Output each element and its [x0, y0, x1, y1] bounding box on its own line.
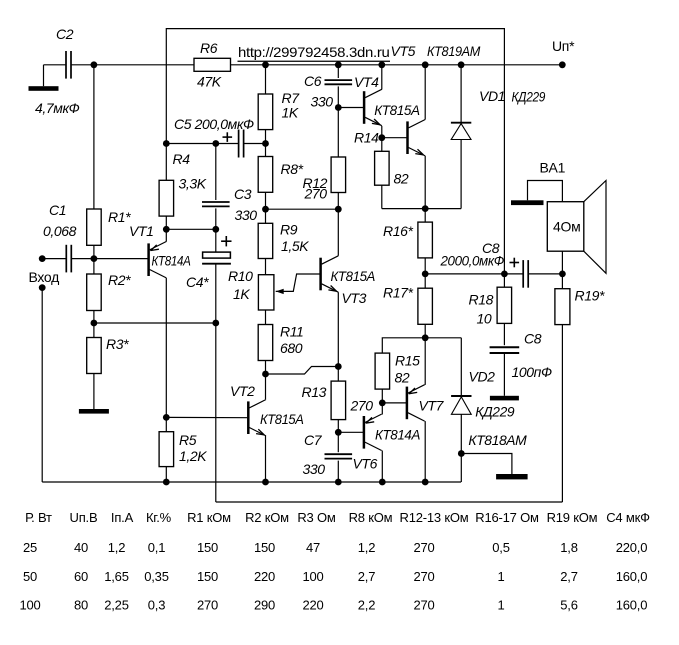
svg-text:1,2: 1,2: [108, 540, 125, 555]
svg-text:КТ815А: КТ815А: [374, 102, 420, 118]
svg-text:КТ818АМ: КТ818АМ: [468, 432, 527, 448]
svg-text:R1*: R1*: [108, 209, 131, 225]
svg-text:1,8: 1,8: [560, 540, 577, 555]
node VT1 collector: [163, 226, 170, 233]
svg-text:0,35: 0,35: [144, 569, 169, 584]
resistor R19*: [555, 289, 570, 325]
svg-text:C1: C1: [49, 202, 66, 218]
wire node to C7: [337, 432, 339, 452]
wire node to R5: [165, 417, 167, 431]
svg-text:100пФ: 100пФ: [512, 364, 552, 380]
svg-text:R8*: R8*: [281, 161, 304, 177]
wire output row: [425, 273, 523, 275]
svg-text:2000,0мкФ: 2000,0мкФ: [440, 253, 505, 269]
wire node to R15 top: [382, 338, 425, 353]
svg-text:40: 40: [74, 540, 88, 555]
svg-text:Кг.%: Кг.%: [146, 510, 172, 525]
svg-text:160,0: 160,0: [616, 597, 648, 612]
wire R14 down: [381, 185, 383, 208]
svg-text:Iп.А: Iп.А: [111, 510, 134, 525]
ground (C2 input): [43, 65, 45, 86]
node rail-R7: [262, 61, 269, 68]
svg-text:47: 47: [306, 540, 320, 555]
terminal Вход (signal): [39, 255, 46, 262]
svg-text:R15: R15: [395, 353, 420, 369]
svg-text:25: 25: [23, 540, 37, 555]
svg-text:КД229: КД229: [475, 404, 515, 420]
node R8/R9: [262, 206, 269, 213]
svg-text:150: 150: [197, 569, 218, 584]
node rail-C6: [335, 61, 342, 68]
wire VT4 base: [338, 107, 363, 109]
wire R7 to node: [265, 130, 267, 144]
svg-text:Uп*: Uп*: [552, 38, 575, 54]
svg-text:1K: 1K: [233, 286, 250, 302]
svg-text:220,0: 220,0: [616, 540, 648, 555]
wire R15 to VT6 emitter node: [381, 389, 383, 403]
wire C2 to R6: [71, 64, 194, 66]
wire R8 node to R12 node: [266, 208, 339, 210]
svg-text:R17*: R17*: [383, 285, 413, 301]
node VT1 emitter / VT2 base: [163, 414, 170, 421]
svg-text:50: 50: [23, 569, 37, 584]
svg-text:1,2: 1,2: [358, 540, 375, 555]
node rail-VT5: [422, 61, 429, 68]
capacitor C7: [325, 453, 353, 455]
wire node to R17: [424, 274, 426, 288]
svg-text:R14: R14: [354, 130, 379, 146]
svg-text:R19*: R19*: [575, 288, 605, 304]
svg-text:2,2: 2,2: [358, 597, 375, 612]
node R17/R15/VT7: [422, 334, 429, 341]
wire R18 to C8: [503, 323, 505, 345]
svg-text:R3 Ом: R3 Ом: [297, 510, 336, 525]
node R2/R3 junction: [91, 320, 98, 327]
svg-text:1,65: 1,65: [104, 569, 129, 584]
node R7/R8/C5: [262, 140, 269, 147]
svg-text:VT1: VT1: [129, 223, 153, 239]
wire C6 to VT4 base node: [337, 86, 339, 107]
svg-text:270: 270: [350, 398, 374, 414]
wire speaker top to ground: [528, 181, 563, 202]
wire VT1 collector node to C4 top: [166, 228, 216, 230]
diode VD2: [460, 338, 462, 396]
resistor R4: [159, 180, 174, 216]
svg-text:R1 кОм: R1 кОм: [187, 510, 231, 525]
transistor VT1: [165, 229, 167, 241]
svg-text:C8: C8: [524, 331, 542, 347]
wire R16 to output node: [424, 258, 426, 274]
svg-text:C6: C6: [304, 73, 322, 89]
wire R10 to R11: [265, 310, 267, 325]
terminal Uп*: [559, 61, 566, 68]
wire VT5 emitter down: [424, 156, 426, 209]
capacitor C5: [238, 130, 240, 158]
svg-text:КТ819АМ: КТ819АМ: [427, 43, 481, 59]
capacitor C4*: [215, 229, 217, 252]
wire R13 to VT6 base node: [337, 420, 339, 433]
wire feedback bottom: [216, 501, 563, 503]
svg-text:R13: R13: [302, 384, 327, 400]
svg-text:1: 1: [497, 569, 504, 584]
resistor R10 (preset): [258, 275, 274, 310]
resistor R13: [331, 381, 346, 420]
wire node to R13: [337, 367, 339, 382]
svg-text:VT7: VT7: [419, 398, 445, 414]
svg-text:100: 100: [19, 597, 40, 612]
wire R4 node to C5: [166, 143, 238, 145]
wire R2 to R3: [93, 311, 95, 338]
wire R19 to feedback bottom: [561, 325, 563, 502]
wire C3 to C4 node: [215, 208, 217, 229]
node R4 top junction: [163, 140, 170, 147]
transistor VT4: [381, 65, 383, 90]
resistor R5: [159, 432, 174, 467]
svg-text:VT2: VT2: [230, 383, 255, 399]
resistor R12: [331, 157, 346, 193]
capacitor C8 (100пФ): [490, 346, 520, 348]
transistor VT6: [381, 403, 383, 415]
wire VT2 base: [166, 416, 247, 418]
svg-text:0,1: 0,1: [148, 540, 165, 555]
ground (R3): [93, 374, 95, 410]
svg-text:1,5K: 1,5K: [281, 238, 309, 254]
svg-text:R16*: R16*: [383, 223, 413, 239]
svg-text:330: 330: [235, 207, 258, 223]
wire frame node to R18: [503, 274, 505, 287]
wire VT7 base: [382, 402, 407, 404]
svg-text:330: 330: [311, 94, 334, 110]
wire node to R14: [381, 138, 383, 152]
node VD2 ground tap: [458, 450, 465, 457]
svg-text:1K: 1K: [282, 105, 299, 121]
svg-text:47K: 47K: [197, 74, 222, 90]
svg-text:VT6: VT6: [353, 456, 378, 472]
resistor R15: [375, 353, 390, 389]
resistor R1*: [87, 209, 102, 245]
svg-text:290: 290: [254, 597, 275, 612]
resistor R14: [375, 151, 390, 185]
node VT4 base: [335, 104, 342, 111]
wire C5 to R7 node: [244, 143, 266, 145]
svg-text:0,3: 0,3: [148, 597, 165, 612]
wire R9 to R10: [265, 259, 267, 275]
wire R11 to VT2 node: [265, 361, 267, 375]
svg-text:КТ815А: КТ815А: [331, 268, 376, 284]
svg-text:330: 330: [303, 461, 326, 477]
svg-text:2,25: 2,25: [104, 597, 129, 612]
svg-text:R9: R9: [280, 222, 298, 238]
wire VT3 base / R10 wiper: [276, 274, 321, 291]
wire bootstrap frame: [166, 29, 504, 274]
wire R4 to VT1 collector node: [165, 216, 167, 229]
svg-text:1: 1: [497, 597, 504, 612]
svg-text:КД229: КД229: [512, 89, 546, 105]
wire junction to R4: [165, 144, 167, 181]
svg-text:C4*: C4*: [186, 274, 209, 290]
svg-text:VT5: VT5: [391, 43, 416, 59]
wire rail down to R1: [93, 65, 95, 209]
svg-text:270: 270: [197, 597, 218, 612]
wire C1 to VT1 base: [71, 258, 148, 260]
svg-text:150: 150: [254, 540, 275, 555]
wire input ground down: [41, 288, 43, 482]
resistor R7: [258, 94, 273, 130]
wire rail to R7: [265, 65, 267, 94]
node C4 / R2 feedback: [212, 320, 219, 327]
wire to VT5 base: [382, 137, 408, 139]
wire speaker bottom: [561, 251, 563, 274]
transistor VT3: [337, 209, 339, 256]
wire node to R16: [424, 209, 426, 223]
svg-text:R2 кОм: R2 кОм: [245, 510, 289, 525]
resistor R11: [258, 325, 273, 361]
svg-text:VD1: VD1: [479, 88, 505, 104]
svg-text:C4 мкФ: C4 мкФ: [606, 510, 650, 525]
svg-text:R11: R11: [280, 324, 303, 340]
node C3/C4 junction: [212, 226, 219, 233]
node VT5 emitter / R16: [422, 205, 429, 212]
resistor R16*: [418, 222, 433, 258]
svg-text:C5 200,0мкФ: C5 200,0мкФ: [174, 116, 254, 132]
capacitor C8 (2000,0мкФ): [522, 260, 524, 288]
svg-text:BA1: BA1: [540, 160, 566, 176]
resistor R3*: [87, 338, 102, 374]
transistor VT7: [424, 338, 426, 385]
wire jog to VT3 emitter node: [266, 367, 339, 375]
node R16/R17 output: [422, 271, 429, 278]
svg-text:http://299792458.3dn.ru: http://299792458.3dn.ru: [238, 44, 390, 60]
svg-text:4,7мкФ: 4,7мкФ: [35, 100, 80, 116]
svg-text:220: 220: [254, 569, 275, 584]
svg-text:2,7: 2,7: [358, 569, 375, 584]
wire rail to C6: [337, 65, 339, 78]
node VT4 emitter / R14: [378, 134, 385, 141]
svg-text:R3*: R3*: [106, 336, 129, 352]
wire VT6 collector to rail: [381, 451, 383, 483]
ground (speaker): [511, 200, 544, 205]
resistor R6: [194, 58, 231, 71]
wire node to VD2: [425, 337, 461, 339]
svg-text:R12-13 кОм: R12-13 кОм: [400, 510, 469, 525]
svg-text:0,068: 0,068: [43, 223, 77, 239]
svg-text:0,5: 0,5: [492, 540, 509, 555]
node R15/VT6/VT7 base: [379, 400, 386, 407]
node B (VT1 base / R1 R2): [91, 255, 98, 262]
svg-text:80: 80: [74, 597, 88, 612]
svg-text:3,3K: 3,3K: [179, 176, 207, 192]
svg-text:Вход: Вход: [29, 269, 60, 285]
svg-text:150: 150: [197, 540, 218, 555]
wire R6 to supply rail: [231, 64, 563, 66]
transistor VT2: [265, 374, 267, 399]
wire VT4 emitter down: [381, 126, 383, 138]
wire R17 to node: [424, 324, 426, 338]
node C3 top: [212, 140, 219, 147]
svg-text:Р. Вт: Р. Вт: [25, 510, 52, 525]
node VT3 emitter / R13: [335, 363, 342, 370]
capacitor C2: [44, 64, 67, 66]
wire R2-R3 node to C4 column: [94, 322, 216, 324]
resistor R9: [258, 223, 273, 258]
wire VT1 emitter down: [165, 278, 167, 418]
svg-text:R16-17 Ом: R16-17 Ом: [475, 510, 539, 525]
svg-text:КТ815А: КТ815А: [260, 411, 304, 427]
node rail-VT4: [378, 61, 385, 68]
svg-text:100: 100: [302, 569, 323, 584]
wire R5 to bottom rail: [165, 467, 167, 482]
node A (C2/R1 junction): [91, 61, 98, 68]
wire R8 to R9 node: [265, 192, 267, 209]
svg-text:82: 82: [394, 171, 409, 187]
resistor R8*: [258, 157, 273, 193]
capacitor C1: [42, 258, 66, 260]
resistor R2*: [87, 274, 102, 311]
svg-text:R5: R5: [179, 432, 197, 448]
wire C3 top lead: [215, 144, 217, 201]
svg-text:C2: C2: [56, 26, 74, 42]
svg-text:270: 270: [413, 540, 434, 555]
wire R1 to R2: [93, 245, 95, 274]
wire C4 down to feedback: [215, 264, 217, 502]
svg-text:C3: C3: [234, 186, 252, 202]
wire C7 to bottom rail: [337, 461, 339, 482]
svg-text:220: 220: [302, 597, 323, 612]
svg-text:VT3: VT3: [342, 290, 367, 306]
node output / speaker: [559, 271, 566, 278]
speaker BA1: [547, 202, 584, 252]
terminal Вход (ground): [39, 284, 46, 291]
node R11/VT2 collector: [262, 371, 269, 378]
svg-text:R4: R4: [173, 151, 191, 167]
svg-text:VD2: VD2: [469, 369, 496, 385]
wire VT7 collector to rail: [424, 421, 426, 482]
svg-text:270: 270: [304, 186, 328, 202]
svg-text:270: 270: [413, 597, 434, 612]
wire VT3 emitter down: [337, 292, 339, 366]
node VT6 base: [335, 429, 342, 436]
capacitor C6: [325, 79, 353, 81]
diode VD1: [460, 65, 462, 122]
svg-text:R10: R10: [228, 268, 253, 284]
svg-text:КТ814А: КТ814А: [152, 253, 191, 269]
wire output to R19: [561, 274, 563, 289]
svg-text:270: 270: [413, 569, 434, 584]
svg-text:2,7: 2,7: [560, 569, 577, 584]
wire node to R8: [265, 144, 267, 157]
ground (output stage): [461, 454, 512, 475]
wire bottom rail: [42, 481, 461, 483]
svg-text:R6: R6: [200, 40, 218, 56]
ground (C8 100пФ): [503, 353, 505, 396]
transistor VT5: [424, 65, 426, 120]
node rail-VD1: [458, 61, 465, 68]
node R12/VT3 collector: [335, 206, 342, 213]
svg-text:1,2K: 1,2K: [179, 448, 207, 464]
svg-text:5,6: 5,6: [560, 597, 577, 612]
resistor R17*: [418, 288, 433, 324]
svg-text:60: 60: [74, 569, 88, 584]
svg-text:82: 82: [395, 370, 410, 386]
svg-text:VT4: VT4: [354, 74, 379, 90]
svg-text:R19 кОм: R19 кОм: [547, 510, 598, 525]
wire node to R9: [265, 209, 267, 223]
svg-text:Uп.В: Uп.В: [70, 510, 98, 525]
svg-text:R8 кОм: R8 кОм: [349, 510, 393, 525]
wire node to R12: [337, 108, 339, 158]
capacitor C3: [202, 201, 230, 203]
wire R12 to node: [337, 193, 339, 210]
svg-text:R18: R18: [469, 292, 494, 308]
svg-text:R2*: R2*: [108, 272, 131, 288]
svg-text:C7: C7: [304, 432, 323, 448]
wire C8 to speaker node: [528, 273, 562, 275]
wire VT2 emitter to rail: [265, 436, 267, 482]
wire VT6 base: [338, 431, 363, 433]
wire R14/VD1 row: [382, 208, 461, 210]
svg-text:4Ом: 4Ом: [553, 219, 580, 235]
svg-text:КТ814А: КТ814А: [375, 427, 420, 443]
node frame to output: [501, 271, 508, 278]
svg-text:160,0: 160,0: [616, 569, 648, 584]
svg-text:10: 10: [477, 311, 492, 327]
svg-text:680: 680: [280, 340, 303, 356]
resistor R18: [497, 287, 512, 323]
